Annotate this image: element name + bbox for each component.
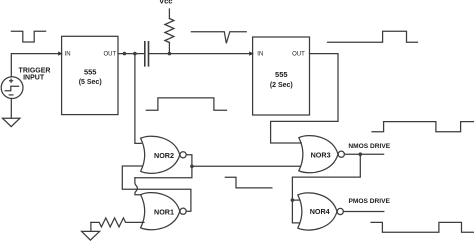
label NOR4 [310,207,330,216]
svg-text:INPUT: INPUT [23,75,45,82]
wire: node B down to NOR2 top input [135,54,141,144]
svg-text:NMOS DRIVE: NMOS DRIVE [348,143,390,150]
pin arrow U2 IN [249,51,253,55]
wire: trigger source to ground [10,99,12,119]
resistor R2 (NOR1 input pull-down) [91,218,144,227]
wire: NOR4 output [343,211,383,213]
555 timer U1 (5 Sec) [62,36,118,114]
wire: resistor R2 to ground [90,222,92,231]
waveform: differentiated spike at 555#2 input [191,32,246,44]
wire: node D to NOR3 bottom input [192,165,301,167]
svg-text:NOR3: NOR3 [311,151,331,160]
label U2 pins and value [257,52,305,89]
label NMOS DRIVE [348,143,390,150]
wire: node E down and left to NOR4 inputs [292,154,360,223]
svg-text:OUT: OUT [292,52,305,58]
junction node C [168,52,172,56]
wire: NOR2 out down with hop over cross wire, to NOR1 top input [135,178,141,195]
resistor R1 (Vcc pull-up) [165,19,174,43]
svg-text:555: 555 [275,70,288,79]
label NOR3 [311,151,331,160]
wire: NOR1 output up and left to NOR2 bottom input (cross-couple) [122,166,191,211]
ground (R2) [82,231,100,240]
waveform: NMOS drive [372,122,474,132]
pin arrow U1 IN [58,51,62,55]
svg-text:IN: IN [257,52,263,58]
svg-text:IN: IN [65,52,71,58]
svg-text:PMOS DRIVE: PMOS DRIVE [349,198,391,205]
wire: node F to NOR4 top input [292,199,299,201]
nor gate NOR3 [299,136,345,173]
nor gate NOR2 [141,136,187,173]
junction node A [123,52,127,56]
svg-text:NOR2: NOR2 [154,151,174,160]
wire: NOR2 output to junction and down [135,155,192,178]
label NOR1 [154,207,174,216]
svg-text:NOR4: NOR4 [310,207,330,216]
junction node B [133,52,137,56]
svg-text:(2 Sec): (2 Sec) [270,82,293,89]
waveform: PMOS drive [371,222,474,232]
trigger source V1 [1,77,23,99]
nor gate NOR4 [298,193,344,230]
label PMOS DRIVE [349,198,391,205]
svg-text:555: 555 [84,67,97,76]
wire: U1 OUT to capacitor [118,53,144,55]
capacitor C1 [145,42,149,66]
waveform: input trigger pulse (top-left) [11,31,45,42]
junction node D (NOR2 out branch) [190,165,194,169]
wire: resistor R1 to node C [168,43,170,54]
junction node E (NMOS branch) [359,152,363,156]
label NOR2 [154,151,174,160]
Vcc label [159,0,172,6]
label U1 pins and value [65,52,117,86]
waveform: 2 Sec output pulse (top right) [328,31,418,42]
wire: capacitor to 555#2 IN [149,53,253,55]
svg-text:NOR1: NOR1 [154,207,174,216]
wire: U2 OUT right and down to NOR3 top input [271,54,338,143]
wire: NOR3 output to NMOS node [344,153,383,155]
wire: trigger source to 555#1 IN [11,54,61,77]
nor gate NOR1 [141,193,187,230]
ground (trigger source) [3,118,20,126]
waveform: NOR2 output falling step [225,177,272,188]
label TRIGGER INPUT [19,68,51,82]
svg-text:TRIGGER: TRIGGER [19,68,51,75]
svg-text:(5 Sec): (5 Sec) [79,79,102,86]
junction node F (NOR4 top input) [291,198,295,202]
555 timer U2 (2 Sec) [253,37,310,115]
svg-text:Vcc: Vcc [159,0,172,6]
svg-text:OUT: OUT [104,52,117,58]
wire: Vcc to resistor R1 [168,9,170,19]
waveform: 5 Sec output pulse [146,98,226,110]
